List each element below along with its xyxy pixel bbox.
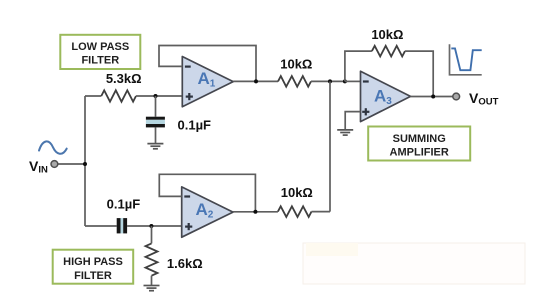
wire A2 feedback bbox=[159, 174, 255, 212]
wire cap to ground bbox=[155, 127, 157, 143]
ground G2 bbox=[337, 130, 353, 135]
box HIGH PASS FILTER bbox=[53, 250, 134, 284]
node cap junction bbox=[154, 94, 158, 98]
wire bottom path left bbox=[85, 225, 117, 227]
wire A3 feedback left bbox=[345, 51, 372, 81]
wire resistor to A1 plus bbox=[136, 95, 182, 97]
resistor R4 10k bottom bbox=[278, 206, 312, 217]
node R5 junction bbox=[149, 224, 153, 228]
svg-text:VOUT: VOUT bbox=[469, 90, 499, 108]
wire R2 to summing node bbox=[311, 80, 345, 82]
ground G3 bbox=[144, 286, 160, 291]
box LOW PASS FILTER bbox=[60, 35, 140, 69]
wire R4 to summing bus bbox=[312, 211, 331, 213]
wire A1 feedback bbox=[159, 46, 256, 82]
wire A2 output bbox=[233, 211, 278, 213]
wire into A3 minus bbox=[345, 80, 361, 82]
svg-text:AMPLIFIER: AMPLIFIER bbox=[390, 147, 449, 159]
node A3 output bbox=[431, 95, 435, 99]
svg-text:5.3kΩ: 5.3kΩ bbox=[106, 71, 142, 86]
svg-text:HIGH PASS: HIGH PASS bbox=[63, 256, 123, 268]
scope notch waveform bbox=[451, 48, 481, 70]
op-amp U2 A2 bbox=[182, 187, 233, 237]
svg-text:10kΩ: 10kΩ bbox=[281, 185, 313, 200]
svg-text:FILTER: FILTER bbox=[74, 270, 112, 282]
svg-text:FILTER: FILTER bbox=[81, 55, 119, 67]
svg-text:10kΩ: 10kΩ bbox=[371, 27, 403, 42]
terminal Vin bbox=[51, 161, 58, 168]
svg-text:LOW PASS: LOW PASS bbox=[71, 41, 129, 53]
watermark remnant (faint) bbox=[303, 243, 525, 284]
wire summing bus vertical bbox=[329, 81, 331, 211]
ground G1 bbox=[147, 144, 163, 149]
wire A3 plus to ground bbox=[345, 112, 360, 130]
node A3 minus branch bbox=[343, 79, 347, 83]
wire cap to A2 plus bbox=[127, 225, 182, 227]
scope output waveform axes bbox=[450, 44, 482, 75]
node Vin junction bbox=[83, 162, 87, 166]
svg-text:0.1µF: 0.1µF bbox=[107, 196, 141, 211]
resistor R3 10k feedback bbox=[372, 46, 405, 57]
wire A3 feedback right bbox=[405, 51, 433, 96]
op-amp U1 A1 bbox=[182, 57, 233, 107]
op-amp U3 A3 bbox=[361, 71, 411, 121]
capacitor C2 0.1uF bbox=[117, 218, 127, 233]
svg-text:1.6kΩ: 1.6kΩ bbox=[167, 256, 203, 271]
wire A3 output bbox=[411, 96, 453, 98]
terminal Vout bbox=[453, 93, 460, 100]
wire junction to R5 bbox=[151, 226, 153, 243]
resistor R2 10k top bbox=[278, 76, 311, 87]
svg-text:10kΩ: 10kΩ bbox=[280, 57, 312, 72]
wire top path left bbox=[85, 95, 101, 97]
resistor R1 5.3k bbox=[101, 90, 136, 101]
svg-text:0.1µF: 0.1µF bbox=[178, 118, 212, 133]
svg-text:VIN: VIN bbox=[29, 158, 48, 176]
wire Vin to bus bbox=[58, 163, 86, 165]
svg-text:SUMMING: SUMMING bbox=[393, 133, 446, 145]
node summing bus top bbox=[328, 79, 332, 83]
node A1 output bbox=[254, 79, 258, 83]
wire input bus vertical bbox=[84, 96, 86, 226]
capacitor C1 0.1uF bbox=[146, 117, 165, 128]
wire cap branch bbox=[155, 96, 157, 117]
box SUMMING AMPLIFIER bbox=[368, 127, 470, 161]
node A2 output bbox=[253, 210, 257, 214]
wire R5 to ground bbox=[151, 276, 153, 286]
wire A1 output bbox=[233, 80, 278, 82]
source sine symbol bbox=[39, 141, 67, 153]
resistor R5 1.6k bbox=[146, 243, 158, 275]
